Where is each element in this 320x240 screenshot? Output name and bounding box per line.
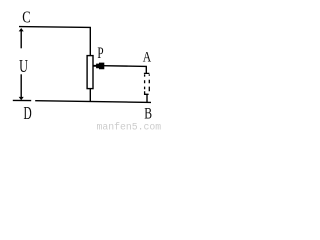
svg-text:U: U (19, 56, 28, 76)
wire corner down from wiper to dashed component (145, 66, 147, 73)
potentiometer P body (87, 56, 93, 89)
wire vertical from top rail down to potentiometer (89, 27, 91, 56)
svg-text:P: P (97, 45, 103, 62)
voltage arrow U upper shaft (20, 29, 22, 48)
voltage arrow U upper head (19, 28, 24, 31)
wire from dashed box down to bottom rail (146, 94, 148, 102)
svg-text:manfen5.com: manfen5.com (97, 122, 162, 132)
wire from potentiometer bottom to bottom rail (89, 89, 91, 102)
voltage arrow U lower head (19, 97, 24, 100)
svg-text:B: B (144, 106, 152, 123)
svg-text:C: C (22, 7, 30, 26)
potentiometer wiper arrow head (stepped) (93, 63, 104, 70)
wire bottom rail left segment (13, 99, 31, 101)
wire bottom rail right segment (35, 101, 151, 103)
dashed component box between A and B (144, 73, 150, 94)
voltage arrow U lower shaft (20, 74, 22, 97)
wire top rail from C area to corner (19, 26, 91, 29)
svg-text:A: A (143, 50, 152, 66)
svg-text:D: D (24, 103, 32, 123)
wire wiper horizontal to right branch (102, 65, 147, 68)
